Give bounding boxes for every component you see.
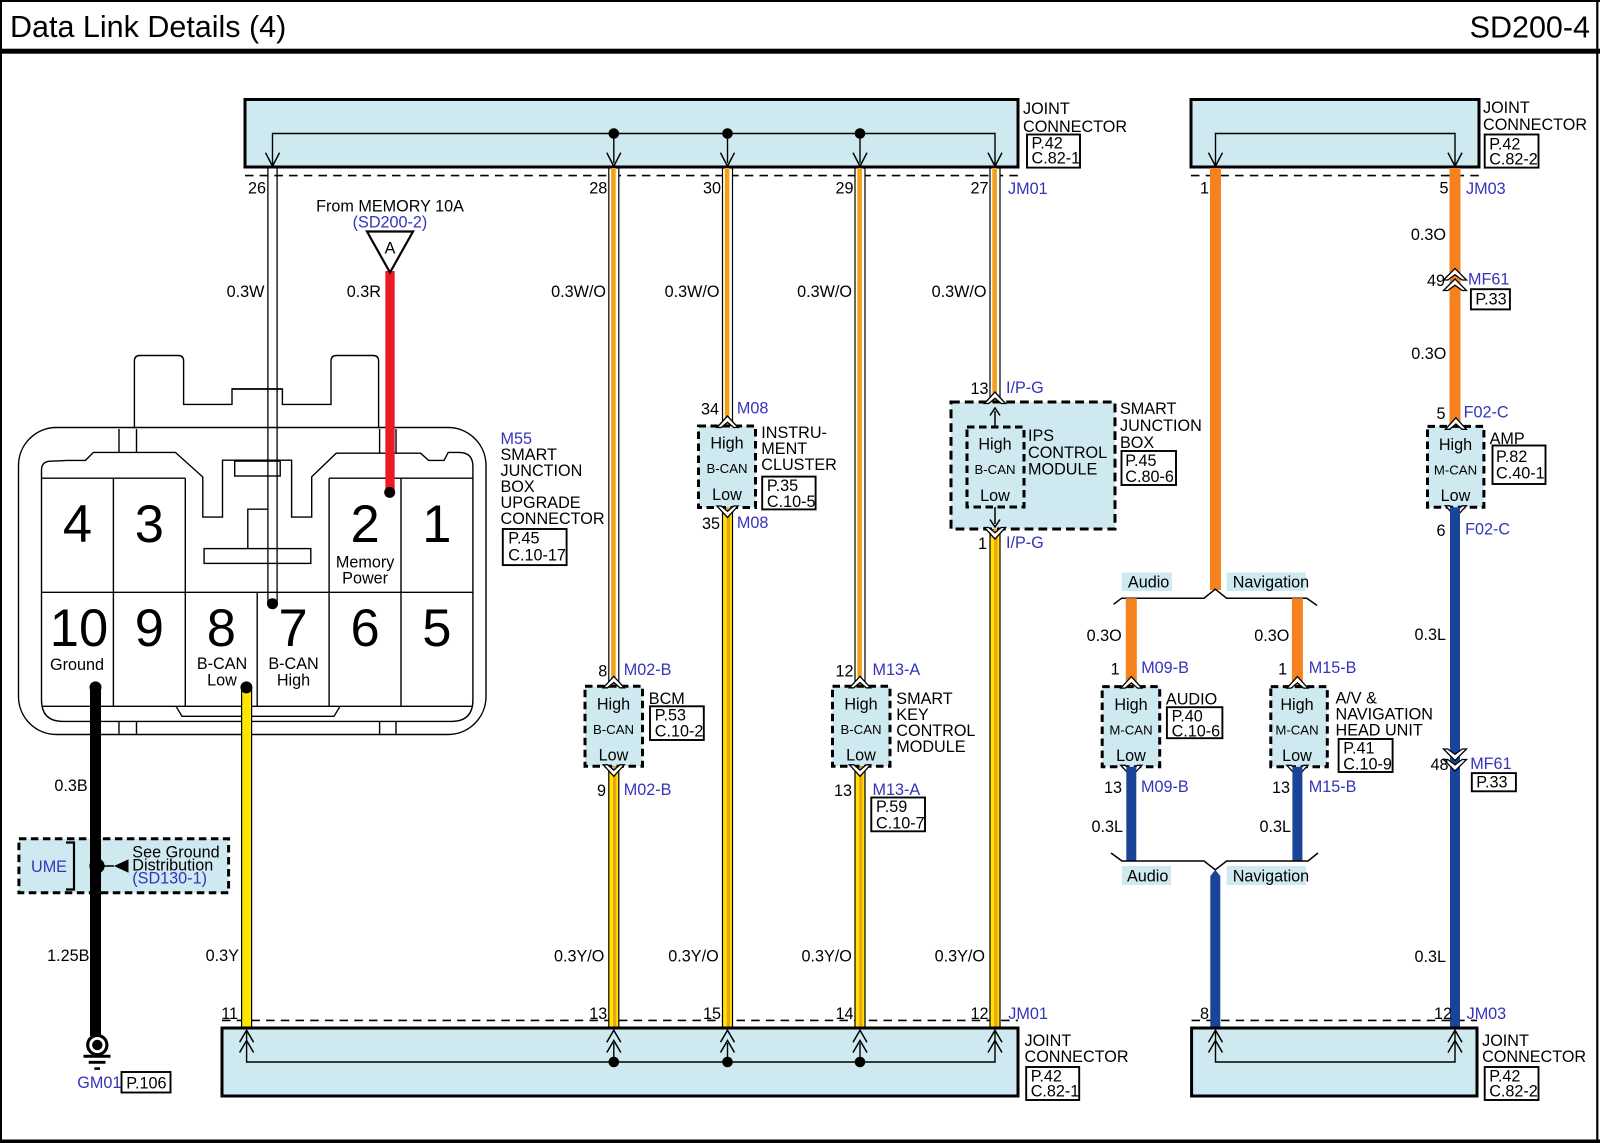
svg-text:BOX: BOX: [1120, 434, 1154, 452]
svg-text:JM01: JM01: [1008, 1005, 1048, 1023]
node: junction dot at M55 pin 2: [384, 487, 395, 498]
svg-text:High: High: [844, 696, 877, 714]
svg-text:C.82-2: C.82-2: [1489, 151, 1538, 169]
joint connector JM03 (bottom, P.42 C.82-2): [1192, 1005, 1587, 1101]
wire 0.3L from AUDIO pin 13: [1091, 767, 1136, 861]
svg-text:JUNCTION: JUNCTION: [1120, 417, 1202, 435]
svg-text:(SD200-2): (SD200-2): [353, 214, 428, 232]
svg-text:8: 8: [1200, 1005, 1209, 1023]
svg-text:M15-B: M15-B: [1309, 778, 1357, 796]
svg-text:35: 35: [702, 515, 720, 533]
svg-text:Low: Low: [1282, 747, 1312, 765]
wire 0.3O branch to AUDIO: [1087, 598, 1137, 686]
pin numbers of M55: [50, 495, 452, 690]
svg-text:(SD130-1): (SD130-1): [132, 870, 207, 888]
svg-text:C.10-5: C.10-5: [767, 493, 816, 511]
svg-text:0.3Y/O: 0.3Y/O: [668, 948, 718, 966]
svg-text:8: 8: [207, 599, 236, 658]
svg-text:12: 12: [1434, 1005, 1452, 1023]
module M15-B A/V & NAVIGATION HEAD UNIT (M-CAN High/Low): [1271, 659, 1433, 797]
svg-text:High: High: [1280, 696, 1313, 714]
svg-text:M-CAN: M-CAN: [1434, 463, 1477, 478]
svg-text:C.80-6: C.80-6: [1125, 468, 1174, 486]
svg-text:0.3R: 0.3R: [347, 283, 381, 301]
svg-text:P.33: P.33: [1475, 291, 1506, 309]
svg-text:Low: Low: [846, 747, 876, 765]
svg-text:0.3Y: 0.3Y: [206, 947, 240, 965]
wire 0.3O from JM03 pin 1 to Audio/Navigation split: [1210, 168, 1221, 590]
svg-text:1: 1: [1278, 661, 1287, 679]
svg-text:8: 8: [598, 662, 607, 680]
svg-text:B-CAN: B-CAN: [840, 722, 881, 737]
svg-text:Low: Low: [712, 486, 742, 504]
svg-text:I/P-G: I/P-G: [1006, 379, 1044, 397]
svg-text:M13-A: M13-A: [873, 661, 921, 679]
svg-text:M09-B: M09-B: [1141, 659, 1189, 677]
svg-text:C.82-1: C.82-1: [1031, 1083, 1080, 1101]
svg-text:1.25B: 1.25B: [47, 947, 89, 965]
svg-text:P.45: P.45: [508, 530, 539, 548]
svg-text:CONNECTOR: CONNECTOR: [1025, 1048, 1129, 1066]
svg-text:C.10-9: C.10-9: [1343, 756, 1392, 774]
svg-text:13: 13: [970, 380, 988, 398]
wire 0.3B/1.25B from M55 pin 10 Ground to GM01: [47, 687, 101, 1036]
svg-text:F02-C: F02-C: [1465, 521, 1510, 539]
svg-text:1: 1: [978, 535, 987, 553]
svg-text:1: 1: [1111, 661, 1120, 679]
svg-text:5: 5: [422, 599, 451, 658]
svg-text:0.3O: 0.3O: [1254, 627, 1289, 645]
svg-text:CONNECTOR: CONNECTOR: [1482, 1048, 1586, 1066]
wire 0.3L combined to JM03 pin 8: [1210, 870, 1220, 1028]
svg-text:JM03: JM03: [1467, 1005, 1507, 1023]
joint connector JM01 (top, P.42 C.82-1): [245, 100, 1127, 199]
connector M55 SMART JUNCTION BOX UPGRADE CONNECTOR: [19, 356, 487, 735]
module F02-C AMP (M-CAN High/Low): [1428, 404, 1546, 541]
svg-text:2: 2: [350, 495, 379, 554]
joint connector JM01 (bottom, P.42 C.82-1): [221, 1005, 1128, 1101]
svg-text:M09-B: M09-B: [1141, 778, 1189, 796]
connector UME (See Ground Distribution): [19, 839, 229, 893]
module M09-B AUDIO (M-CAN High/Low): [1102, 659, 1222, 797]
svg-text:27: 27: [970, 180, 988, 198]
svg-text:P.33: P.33: [1476, 774, 1507, 792]
inline connector MF61 pin 49: [1427, 269, 1510, 310]
svg-text:29: 29: [835, 180, 853, 198]
svg-text:P.59: P.59: [876, 798, 907, 816]
svg-text:B-CAN: B-CAN: [593, 722, 634, 737]
svg-text:Low: Low: [207, 672, 237, 690]
merge bracket Audio/Navigation (bottom): [1111, 853, 1318, 886]
svg-text:1: 1: [422, 495, 451, 554]
node: junction dot at M55 pin 10: [90, 681, 102, 693]
svg-text:26: 26: [248, 180, 266, 198]
svg-text:0.3W/O: 0.3W/O: [665, 283, 720, 301]
svg-text:JOINT: JOINT: [1483, 99, 1530, 117]
wire 0.3Y/O from BCM to JM01 pin 13: [554, 766, 619, 1028]
svg-text:CONNECTOR: CONNECTOR: [1023, 118, 1127, 136]
svg-text:MF61: MF61: [1468, 271, 1509, 289]
svg-text:MF61: MF61: [1470, 755, 1511, 773]
module SMART JUNCTION BOX with IPS CONTROL MODULE: [951, 379, 1202, 553]
svg-text:13: 13: [834, 782, 852, 800]
joint connector JM03 (top, P.42 C.82-2): [1191, 99, 1587, 198]
svg-text:0.3O: 0.3O: [1411, 226, 1446, 244]
svg-text:C.10-2: C.10-2: [655, 723, 704, 741]
svg-text:High: High: [597, 696, 630, 714]
svg-text:34: 34: [701, 401, 719, 419]
svg-text:0.3Y/O: 0.3Y/O: [554, 948, 604, 966]
svg-text:12: 12: [835, 662, 853, 680]
svg-text:High: High: [710, 435, 743, 453]
page number SD200-4: [1470, 11, 1590, 45]
wire 0.3Y from M55 pin 8 B-CAN Low to JM01 pin 11: [206, 687, 252, 1028]
svg-text:CONNECTOR: CONNECTOR: [501, 510, 605, 528]
svg-text:13: 13: [589, 1005, 607, 1023]
wire 0.3W/O from JM01 pin 27 to IPS control module: [932, 168, 1000, 402]
svg-text:M08: M08: [737, 400, 769, 418]
wire 0.3R from fuse MEMORY 10A to M55 pin 2 Memory Power: [347, 271, 395, 492]
svg-text:13: 13: [1104, 779, 1122, 797]
svg-text:P.82: P.82: [1496, 448, 1527, 466]
svg-text:B-CAN: B-CAN: [197, 655, 247, 673]
wire 0.3O from JM03 pin 5 to AMP: [1411, 168, 1461, 426]
wire 0.3L from AMP pin 6 to JM03 pin 12: [1414, 507, 1460, 1028]
svg-text:JOINT: JOINT: [1023, 100, 1070, 118]
svg-text:13: 13: [1272, 779, 1290, 797]
svg-text:High: High: [1114, 696, 1147, 714]
svg-text:B-CAN: B-CAN: [706, 461, 747, 476]
svg-text:A: A: [385, 240, 396, 258]
module M08 INSTRUMENT CLUSTER (B-CAN High/Low): [699, 400, 837, 534]
wire 0.3W/O from JM01 pin 29 to smart key control module: [797, 168, 865, 686]
svg-text:CLUSTER: CLUSTER: [761, 456, 837, 474]
svg-text:4: 4: [63, 495, 92, 554]
svg-text:M13-A: M13-A: [873, 781, 921, 799]
svg-text:9: 9: [135, 599, 164, 658]
svg-text:14: 14: [835, 1005, 853, 1023]
svg-text:1: 1: [1200, 180, 1209, 198]
wire 0.3Y/O from instrument cluster to JM01 pin 15: [668, 508, 732, 1029]
svg-text:Navigation: Navigation: [1233, 574, 1310, 592]
svg-text:0.3W/O: 0.3W/O: [797, 283, 852, 301]
split bracket Audio/Navigation (top): [1114, 573, 1318, 606]
wire 0.3W/O from JM01 pin 28 to BCM: [551, 168, 619, 686]
svg-text:MODULE: MODULE: [1028, 461, 1097, 479]
label M55: [501, 430, 605, 565]
svg-text:49: 49: [1427, 272, 1445, 290]
svg-text:0.3L: 0.3L: [1259, 818, 1291, 836]
power feed triangle A (From MEMORY 10A): [316, 198, 464, 273]
svg-text:6: 6: [1436, 522, 1445, 540]
svg-text:6: 6: [350, 599, 379, 658]
svg-text:11: 11: [221, 1005, 238, 1023]
svg-text:Ground: Ground: [50, 656, 104, 674]
svg-text:15: 15: [703, 1005, 721, 1023]
wire 0.3O branch to A/V & Navigation head unit: [1254, 598, 1303, 686]
svg-text:CONTROL: CONTROL: [1028, 444, 1107, 462]
wire 0.3Y/O from smart key control module to JM01 pin 14: [802, 766, 865, 1028]
node: junction dot at M55 pin 7: [267, 598, 278, 609]
svg-text:MODULE: MODULE: [896, 738, 965, 756]
svg-text:Audio: Audio: [1128, 574, 1169, 592]
svg-text:Data Link Details (4): Data Link Details (4): [10, 10, 286, 44]
svg-text:I/P-G: I/P-G: [1006, 534, 1044, 552]
ground GM01: [77, 1035, 170, 1092]
module M13-A SMART KEY CONTROL MODULE (B-CAN High/Low): [833, 661, 976, 833]
module BCM (B-CAN High/Low): [585, 661, 704, 800]
svg-text:SMART: SMART: [1120, 400, 1176, 418]
svg-text:7: 7: [278, 599, 307, 658]
svg-text:BCM: BCM: [649, 690, 685, 708]
svg-text:M15-B: M15-B: [1309, 659, 1357, 677]
svg-text:0.3Y/O: 0.3Y/O: [935, 948, 985, 966]
svg-text:0.3W/O: 0.3W/O: [932, 283, 987, 301]
svg-text:JM01: JM01: [1008, 180, 1048, 198]
svg-text:12: 12: [970, 1005, 988, 1023]
svg-text:M-CAN: M-CAN: [1275, 722, 1318, 737]
wire 0.3Y/O from IPS control module to JM01 pin 12: [935, 529, 1000, 1028]
svg-text:C.10-17: C.10-17: [508, 547, 566, 565]
svg-text:GM01: GM01: [77, 1074, 121, 1092]
svg-text:CONNECTOR: CONNECTOR: [1483, 116, 1587, 134]
svg-text:High: High: [1439, 436, 1472, 454]
svg-text:Power: Power: [342, 570, 388, 588]
svg-text:0.3O: 0.3O: [1087, 627, 1122, 645]
wire 0.3L from head unit pin 13: [1259, 767, 1302, 861]
svg-text:10: 10: [50, 599, 108, 658]
svg-text:High: High: [978, 436, 1011, 454]
svg-text:UME: UME: [31, 858, 67, 876]
wire 0.3W from JM01 pin 26 to M55 pin 7 B-CAN High: [227, 168, 277, 604]
svg-text:HEAD UNIT: HEAD UNIT: [1336, 722, 1423, 740]
svg-text:0.3W/O: 0.3W/O: [551, 283, 606, 301]
svg-text:48: 48: [1430, 756, 1448, 774]
svg-text:JM03: JM03: [1466, 180, 1506, 198]
svg-text:C.40-1: C.40-1: [1496, 465, 1545, 483]
svg-text:28: 28: [589, 180, 607, 198]
wire 0.3W/O from JM01 pin 30 to instrument cluster: [665, 168, 733, 426]
svg-text:9: 9: [597, 782, 606, 800]
dashed boundary line of bottom joint connectors: [222, 1019, 1477, 1021]
svg-text:0.3L: 0.3L: [1414, 626, 1446, 644]
svg-text:SD200-4: SD200-4: [1470, 11, 1590, 45]
svg-text:3: 3: [135, 495, 164, 554]
svg-text:B-CAN: B-CAN: [268, 655, 318, 673]
svg-text:Low: Low: [1441, 487, 1471, 505]
svg-text:C.10-6: C.10-6: [1172, 723, 1221, 741]
svg-text:0.3Y/O: 0.3Y/O: [802, 948, 852, 966]
title Data Link Details (4): [10, 10, 286, 44]
svg-text:M08: M08: [737, 514, 769, 532]
svg-text:IPS: IPS: [1028, 427, 1054, 445]
svg-text:Low: Low: [599, 747, 629, 765]
svg-text:0.3O: 0.3O: [1411, 345, 1446, 363]
svg-text:M-CAN: M-CAN: [1109, 722, 1152, 737]
svg-text:30: 30: [703, 180, 721, 198]
svg-text:0.3L: 0.3L: [1414, 948, 1446, 966]
svg-text:0.3W: 0.3W: [227, 283, 266, 301]
svg-text:5: 5: [1436, 405, 1445, 423]
inline connector MF61 pin 48: [1430, 749, 1515, 792]
svg-text:C.82-1: C.82-1: [1032, 150, 1081, 168]
svg-text:Low: Low: [980, 487, 1010, 505]
svg-text:P.106: P.106: [126, 1075, 166, 1093]
svg-text:High: High: [277, 672, 310, 690]
svg-text:Navigation: Navigation: [1233, 868, 1310, 886]
svg-text:Low: Low: [1116, 747, 1146, 765]
svg-text:F02-C: F02-C: [1464, 404, 1509, 422]
svg-text:Audio: Audio: [1127, 868, 1168, 886]
svg-text:M02-B: M02-B: [624, 661, 672, 679]
svg-text:AUDIO: AUDIO: [1166, 691, 1217, 709]
svg-text:5: 5: [1439, 180, 1448, 198]
node: junction dot at M55 pin 8: [240, 681, 252, 693]
svg-text:C.10-7: C.10-7: [876, 815, 925, 833]
svg-text:B-CAN: B-CAN: [974, 462, 1015, 477]
svg-text:0.3L: 0.3L: [1091, 818, 1123, 836]
svg-text:0.3B: 0.3B: [54, 777, 87, 795]
svg-text:M02-B: M02-B: [624, 781, 672, 799]
svg-text:C.82-2: C.82-2: [1489, 1083, 1538, 1101]
